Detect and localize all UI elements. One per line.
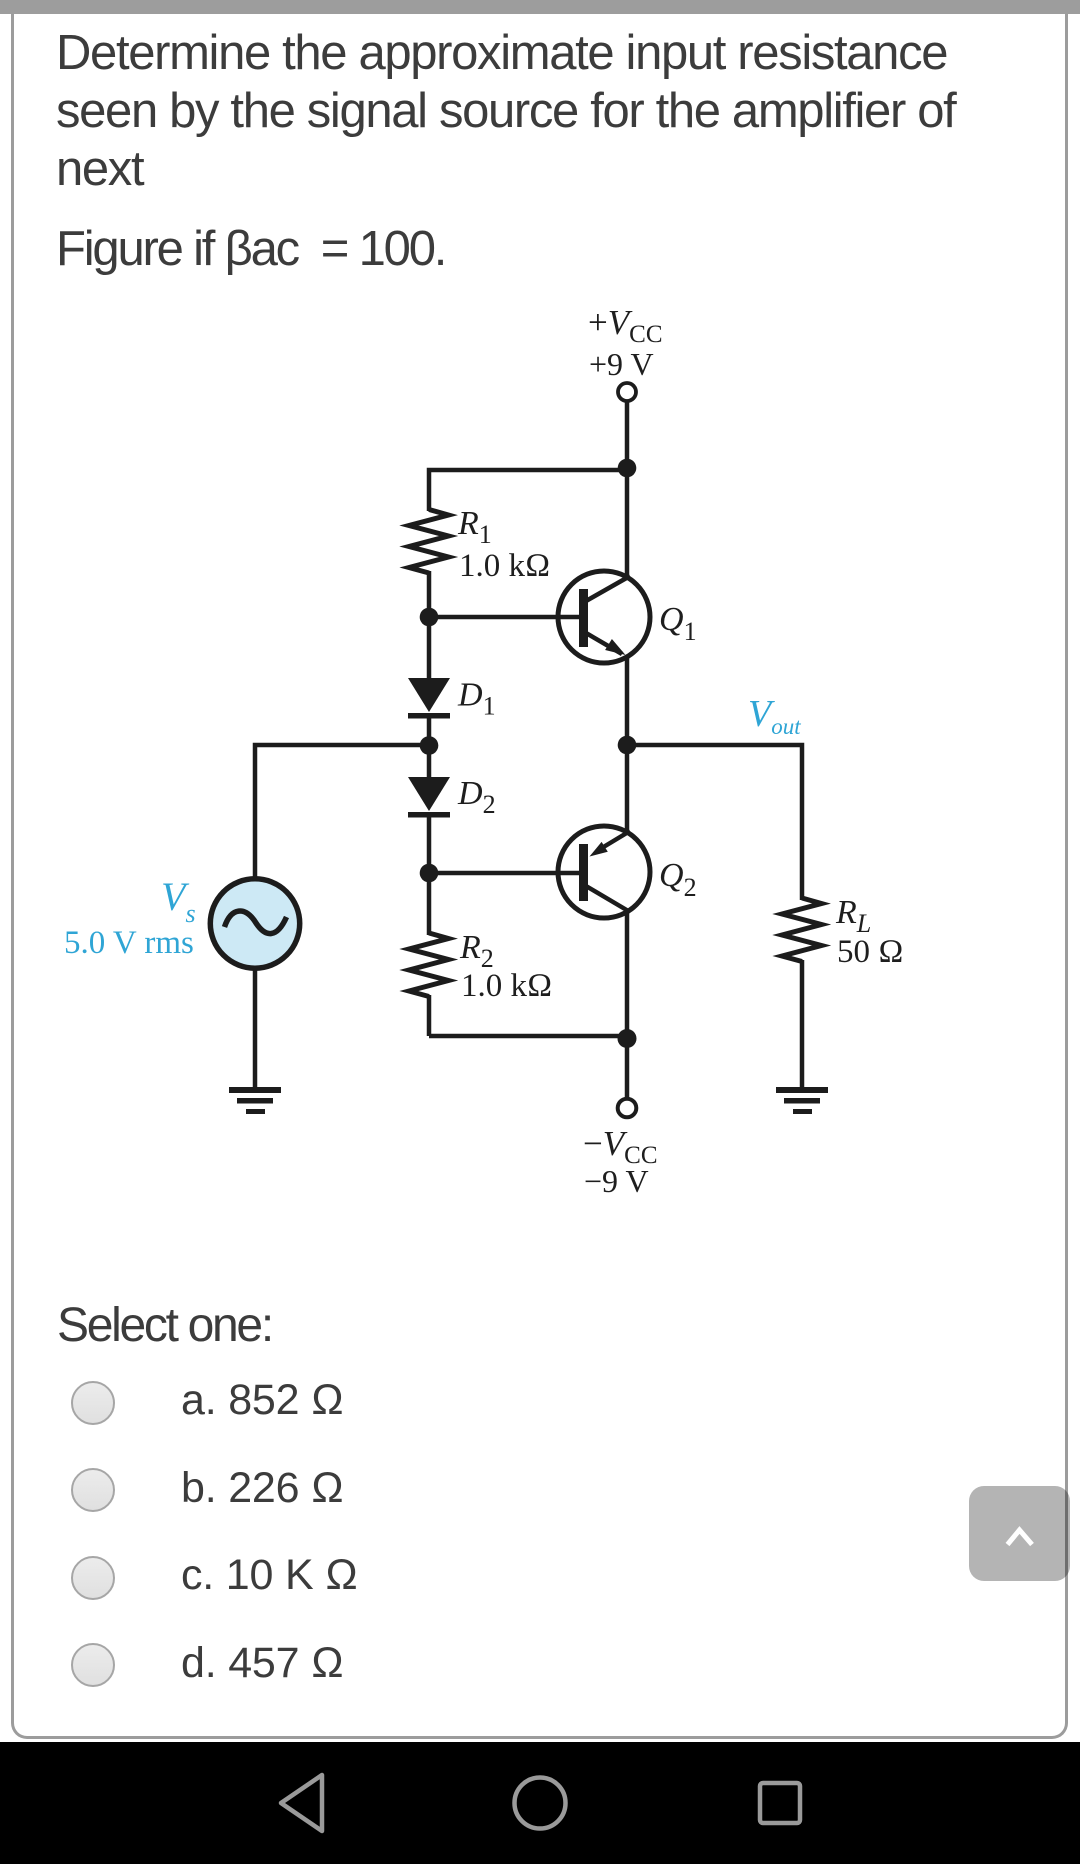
svg-text:RL: RL bbox=[835, 894, 871, 938]
svg-text:5.0 V rms: 5.0 V rms bbox=[64, 925, 194, 961]
svg-text:+VCC: +VCC bbox=[588, 303, 663, 348]
svg-text:Q1: Q1 bbox=[659, 601, 697, 646]
svg-text:1.0 kΩ: 1.0 kΩ bbox=[461, 968, 552, 1004]
svg-text:50 Ω: 50 Ω bbox=[837, 934, 904, 970]
svg-text:1.0 kΩ: 1.0 kΩ bbox=[459, 548, 550, 584]
svg-text:D1: D1 bbox=[457, 677, 496, 721]
svg-text:D2: D2 bbox=[457, 775, 496, 819]
svg-text:R1: R1 bbox=[457, 505, 492, 549]
svg-text:Q2: Q2 bbox=[659, 857, 697, 902]
svg-text:−9 V: −9 V bbox=[584, 1163, 649, 1199]
svg-text:+9 V: +9 V bbox=[589, 346, 654, 382]
svg-text:Vs: Vs bbox=[161, 874, 196, 928]
svg-text:Vout: Vout bbox=[748, 693, 801, 739]
svg-text:R2: R2 bbox=[459, 929, 494, 973]
